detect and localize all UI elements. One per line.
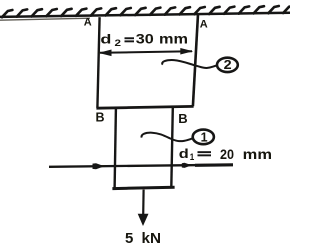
svg-text:1: 1 [190, 152, 195, 163]
d2 left arrowhead [98, 50, 111, 57]
svg-text:mm: mm [159, 31, 188, 47]
load force wire [142, 190, 145, 216]
d1 dimension line [49, 165, 233, 167]
d1 dimension line thick segment [195, 163, 233, 167]
bar segment 2 left edge wire [97, 17, 99, 108]
d1 left arrowhead [93, 163, 105, 169]
leader wire to balloon 2 [162, 60, 218, 68]
svg-text:B: B [96, 111, 105, 125]
svg-text:A: A [84, 16, 92, 28]
svg-text:d: d [179, 146, 189, 161]
svg-text:d: d [100, 33, 111, 47]
svg-text:mm: mm [243, 146, 272, 162]
bar segment 2 shoulder bottom line [96, 106, 193, 108]
leader wire to balloon 1 [142, 133, 193, 142]
svg-text:B: B [178, 111, 187, 126]
svg-text:2: 2 [224, 58, 232, 72]
bar segment 1 left edge wire [115, 109, 116, 189]
svg-text:2: 2 [115, 38, 122, 49]
svg-text:kN: kN [142, 230, 162, 245]
ceiling line [0, 13, 290, 17]
ceiling hatching [2, 6, 294, 17]
load force arrowhead [138, 214, 149, 226]
balloon 2 [217, 58, 238, 72]
bar segment 1 right edge wire [171, 108, 173, 188]
bar segment 1 bottom line [112, 187, 174, 188]
svg-text:1: 1 [201, 130, 208, 144]
bar segment 2 right edge wire [193, 14, 198, 106]
svg-text:A: A [200, 19, 208, 31]
svg-text:20: 20 [220, 146, 234, 162]
d1 right arrowhead [182, 163, 192, 168]
svg-text:5: 5 [125, 230, 133, 245]
d1 value label [179, 146, 272, 163]
d2 right arrowhead [180, 48, 193, 55]
svg-text:30: 30 [136, 31, 154, 47]
d2 dimension line [100, 51, 192, 53]
balloon 1 [193, 130, 214, 145]
load value 5 kN [125, 230, 161, 245]
ceiling line lower echo (left) [0, 18, 90, 20]
d2 value label [100, 31, 188, 50]
